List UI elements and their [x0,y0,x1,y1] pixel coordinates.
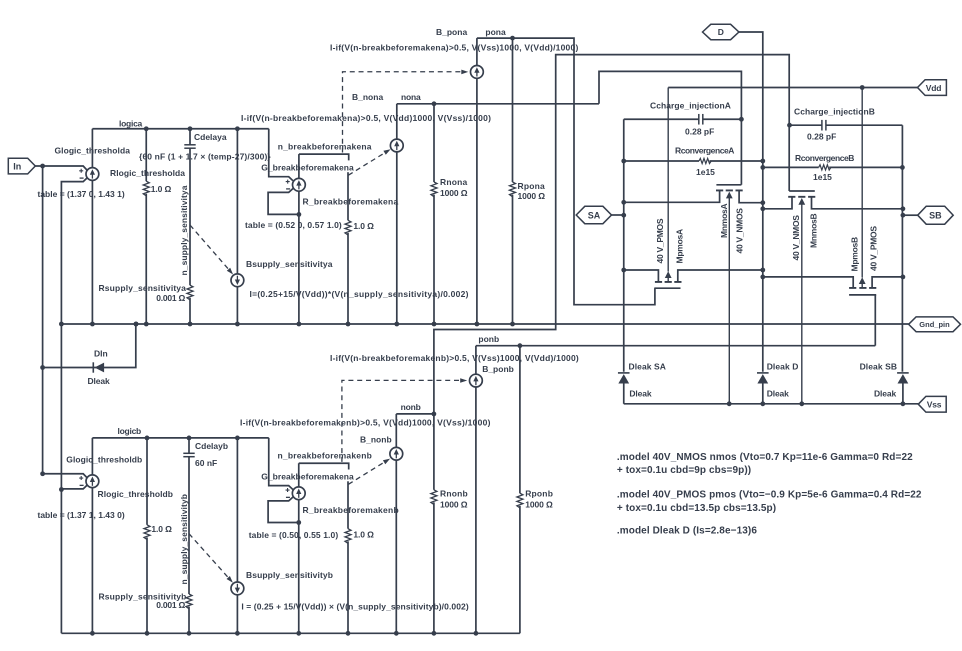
svg-text:.model 40V_NMOS nmos (Vto=0.7: .model 40V_NMOS nmos (Vto=0.7 Kp=11e-6 G… [617,452,913,463]
transistor MpmosB left lead [760,275,853,288]
wire logica to G_breakbeforemakena plus [269,129,293,181]
svg-text:Vss: Vss [927,400,942,410]
label Dleak SA name [629,388,651,398]
wire B_nonb bottom [395,460,397,633]
wire Glogic_thresholdb minus return [61,485,87,489]
svg-text:G_breakbeforemakena: G_breakbeforemakena [261,162,354,172]
wire SA rail [621,119,626,372]
wire In to Glogic_thresholda [35,164,87,171]
svg-text:1000 Ω: 1000 Ω [525,499,553,509]
label nonb [401,402,421,412]
wire In to Glogic_thresholdb [40,471,87,478]
pin Vss [918,396,946,412]
label Rnonb [440,488,468,498]
wire B_ponb bottom [475,387,477,633]
transistor MpmosA gate [654,287,680,289]
svg-text:R_breakbeforemakena: R_breakbeforemakena [303,196,399,206]
svg-text:+ tox=0.1u cbd=13.5p cbs=13.5p: + tox=0.1u cbd=13.5p cbs=13.5p) [617,503,776,514]
label Rsupply_sensitivityb value [156,600,185,610]
svg-text:MnmosA: MnmosA [719,204,729,239]
svg-text:40 V_PMOS: 40 V_PMOS [869,226,879,271]
svg-text:1000 Ω: 1000 Ω [440,499,468,509]
wire B_pona top [476,38,478,65]
resistor Rponb [517,346,523,634]
label I-if nonb [240,417,491,427]
text model Dleak [617,525,757,536]
wire Glogic_thresholdb top [91,438,93,475]
wire Glogic_thresholda top [91,129,93,168]
svg-text:Dleak: Dleak [629,388,651,398]
wire D pin to D rail [739,32,763,372]
wire Bsupply_sensitivitya bottom [236,287,238,324]
label B_ponb [482,364,514,374]
svg-text:Dleak D: Dleak D [767,361,799,371]
current source B_pona [471,66,484,79]
label R_breakbeforemakenb [303,505,399,515]
transistor MpmosA ticks [655,281,682,283]
svg-text:Rlogic_thresholda: Rlogic_thresholda [110,168,185,178]
current source G_breakbeforemakenb [286,487,306,500]
svg-text:I-if(V(n-breakbeforemakena)>0.: I-if(V(n-breakbeforemakena)>0.5, V(Vdd)1… [241,113,491,123]
wire B_nona bottom [396,152,398,324]
label Cdelaya [194,132,227,142]
wire DIn branch [40,322,138,370]
label R_breakbeforemakena [303,196,399,206]
label MnmosA model [735,208,745,254]
label RconvergenceA value [696,167,715,177]
resistor R_breakbeforemakenb [345,481,351,633]
diode Dleak SB [897,373,909,384]
label logica [119,118,143,128]
dashed arrow to Bsupply_sensitivityb [189,534,233,583]
svg-text:Gnd_pin: Gnd_pin [919,320,950,329]
label MpmosB model [869,226,879,271]
svg-text:Dleak SA: Dleak SA [629,361,667,371]
resistor Rpona [510,38,516,324]
svg-text:I=(0.25+15/V(Vdd))*(V(n_supply: I=(0.25+15/V(Vdd))*(V(n_supply_sensitivi… [250,289,469,299]
svg-text:.model 40V_PMOS pmos (Vto=−0.9: .model 40V_PMOS pmos (Vto=−0.9 Kp=5e-6 G… [617,490,922,501]
svg-text:Bsupply_sensitivityb: Bsupply_sensitivityb [246,570,333,580]
label I-if pona [330,43,579,53]
svg-text:I-if(V(n-breakbeforemakena)>0.: I-if(V(n-breakbeforemakena)>0.5, V(Vss)1… [330,43,579,53]
label Bsupply_sensitivityb [246,570,333,580]
svg-text:n_breakbeforemakena: n_breakbeforemakena [278,141,372,151]
pin D [703,24,739,39]
svg-text:0.28 pF: 0.28 pF [685,126,714,136]
svg-text:MpmosA: MpmosA [674,229,684,264]
transistor MpmosB ticks [849,287,876,289]
svg-text:1.0 Ω: 1.0 Ω [353,221,374,231]
transistor MpmosB right lead [872,275,905,288]
transistor MnmosA left lead [624,190,720,202]
label n_supply_sensitivitya [179,185,189,275]
svg-text:0.001 Ω: 0.001 Ω [156,293,185,303]
label MpmosA model [655,218,665,263]
net pona bracket with wire to MpmosA gate [477,36,655,305]
wire B_nona top [396,104,398,139]
svg-text:n_supply_sensitivityb: n_supply_sensitivityb [179,494,189,585]
label Dleak D name [767,388,789,398]
capacitor Cdelaya [184,129,195,285]
wire ground bus with junctions [59,322,909,327]
label Ccharge_injectionA value [685,126,714,136]
wire Glogic_thresholda bottom [91,180,93,324]
svg-text:1.0 Ω: 1.0 Ω [151,524,172,534]
svg-text:Dleak: Dleak [88,376,110,386]
svg-text:Cdelaya: Cdelaya [194,132,227,142]
transistor MnmosA bulk [726,192,733,404]
svg-text:I-if(V(n-breakbeforemakenb)>0.: I-if(V(n-breakbeforemakenb)>0.5, V(Vdd)1… [240,417,491,427]
svg-text:table = (0.50, 0.55 1.0): table = (0.50, 0.55 1.0) [249,530,339,540]
svg-text:nona: nona [401,92,421,102]
resistor R_breakbeforemakena [345,172,351,324]
label Dleak D [767,361,799,371]
transistor MpmosB bulk [859,88,866,288]
svg-text:+ tox=0.1u cbd=9p cbs=9p)): + tox=0.1u cbd=9p cbs=9p)) [617,465,751,476]
label MnmosB [808,214,818,249]
svg-text:Rsupply_sensitivitya: Rsupply_sensitivitya [99,283,187,293]
transistor MnmosB left lead [760,197,792,211]
svg-text:B_nonb: B_nonb [360,435,392,445]
wire Vss rail [624,401,919,406]
svg-text:Ccharge_injectionA: Ccharge_injectionA [650,100,731,110]
label DIn [94,349,108,359]
label Rsupply_sensitivityb [99,592,187,602]
pin Gnd_pin [909,317,961,332]
wire Vdd line [668,85,917,90]
resistor Rnonb [431,414,437,633]
label Bsupply_sensitivitya [246,259,333,269]
label B_pona [436,27,467,37]
label Rnonb value [440,499,468,509]
resistor Rsupply_sensitivitya [187,285,193,324]
label Glogic_thresholda [55,146,131,156]
transistor MnmosB bulk [798,198,805,404]
transistor MnmosA gate [716,184,741,186]
label Cdelayb value [195,458,217,468]
wire SB rail [901,125,906,372]
svg-text:Rnonb: Rnonb [440,488,468,498]
wire logica to Bsupply_sensitivitya [236,129,238,274]
svg-text:Dleak: Dleak [767,388,789,398]
wire Dleak D to Vss [762,384,764,404]
label Rlogic_thresholdb [98,489,173,499]
svg-text:D: D [718,27,724,37]
svg-text:B_nona: B_nona [352,92,383,102]
label Bsupply_sensitivitya formula [250,289,469,299]
net nona bus [397,101,599,106]
svg-text:1000 Ω: 1000 Ω [440,188,468,198]
wire Glogic_thresholda minus return [59,178,87,492]
wire SA pin stub [612,214,624,216]
wire Dleak SB to Vss [902,384,904,404]
resistor RconvergenceA [624,158,765,163]
wire G_breakbeforemakena feedback loop [268,189,301,217]
svg-text:1000 Ω: 1000 Ω [518,191,546,201]
label nona [401,92,421,102]
text model NMOS line2 [617,465,751,476]
svg-text:1.0 Ω: 1.0 Ω [353,530,374,540]
label Rlogic_thresholdb value [151,524,172,534]
wire G_breakbeforemakenb feedback loop [268,497,301,525]
svg-text:table = (1.37 0, 1.43 1): table = (1.37 0, 1.43 1) [38,189,125,199]
svg-text:G_breakbeforemakena: G_breakbeforemakena [261,471,354,481]
label Dleak SB name [874,388,896,398]
label Rnona value [440,188,468,198]
resistor RconvergenceB [760,165,904,170]
svg-text:In: In [13,161,21,171]
svg-text:I-if(V(n-breakbeforemakenb)>0.: I-if(V(n-breakbeforemakenb)>0.5, V(Vss)1… [330,353,579,363]
svg-text:table = (1.37 1, 1.43 0): table = (1.37 1, 1.43 0) [38,510,125,520]
wire G_breakbeforemakena bottom [298,191,300,324]
label RconvergenceB [795,153,854,163]
diode DIn [93,362,104,372]
transistor MnmosB gate [789,190,815,192]
net nonb bracket [396,412,436,417]
label G_breakbeforemakena [261,162,354,172]
net ponb line to MpmosB gate [476,343,875,348]
label B_nona [352,92,383,102]
wire In vertical [42,166,44,474]
transistor MpmosA right lead [678,268,765,282]
wire Bsupply_sensitivityb bottom [236,595,238,634]
dashed arrow to B_nonb [348,459,390,485]
svg-text:Rponb: Rponb [525,488,553,498]
svg-text:ponb: ponb [478,334,499,344]
wire B_nonb top [395,414,397,447]
net n_breakbeforemakena bracket [299,154,349,160]
wire G_breakbeforemakena output top [298,154,300,178]
wire nonb to MnmosB gate [434,55,789,414]
label ponb [478,334,499,344]
wire B_ponb top [475,346,477,375]
wire G_breakbeforemakenb bottom [298,500,300,634]
wire logicb to G_breakbeforemakenb plus [269,438,293,490]
label Rpona [518,181,546,191]
net n_breakbeforemakenb bracket [299,463,349,469]
label table G_breakbeforemakenb [249,530,339,540]
svg-text:1e15: 1e15 [813,172,832,182]
current source Glogic_thresholda [79,168,99,181]
svg-text:SA: SA [588,210,601,220]
label Dleak SA [629,361,667,371]
label I-if nona [241,113,491,123]
svg-text:n_breakbeforemakenb: n_breakbeforemakenb [278,450,373,460]
label Rnona [440,177,468,187]
label Bsupply_sensitivityb formula [241,601,468,611]
svg-text:40 V_NMOS: 40 V_NMOS [791,215,801,261]
svg-text:1e15: 1e15 [696,167,715,177]
svg-text:MnmosB: MnmosB [808,214,818,249]
label Rsupply_sensitivitya value [156,293,185,303]
label Dleak SB [860,361,898,371]
label Rsupply_sensitivitya [99,283,187,293]
label Rponb [525,488,553,498]
wire stage B ground bus with junctions [61,631,520,636]
label MpmosA [674,229,684,264]
current source Bsupply_sensitivitya [231,274,244,287]
svg-text:pona: pona [485,27,506,37]
transistor MnmosA right lead [739,190,765,205]
svg-text:DIn: DIn [94,349,108,359]
svg-text:B_pona: B_pona [436,27,467,37]
svg-text:SB: SB [929,211,942,221]
current source Bsupply_sensitivityb [231,582,244,595]
diode Dleak SA [618,373,630,384]
pin SA [576,206,611,223]
current source Glogic_thresholdb [79,475,99,488]
label RconvergenceA [675,145,734,155]
label Cdelaya value [139,151,271,161]
svg-text:Rnona: Rnona [440,177,468,187]
svg-text:Glogic_thresholdb: Glogic_thresholdb [66,455,142,465]
current source G_breakbeforemakena [286,178,306,191]
diode Dleak D [757,373,769,384]
transistor MnmosB right lead [812,197,906,211]
svg-text:{60 nF (1 + 1.7 × (temp-27)/30: {60 nF (1 + 1.7 × (temp-27)/300)} [139,151,271,161]
svg-text:40 V_PMOS: 40 V_PMOS [655,218,665,263]
label Ccharge_injectionA [650,100,731,110]
label Rlogic_thresholda [110,168,185,178]
text model NMOS line1 [617,452,913,463]
svg-text:table = (0.52 0, 0.57 1.0): table = (0.52 0, 0.57 1.0) [245,220,342,230]
capacitor Cdelayb [183,438,194,594]
label Glogic_thresholdb [66,455,142,465]
dashed line n_breakbeforemakena to B_pona [343,70,469,153]
svg-text:40 V_NMOS: 40 V_NMOS [735,208,745,254]
dashed arrow to Bsupply_sensitivitya [190,225,233,275]
label Rpona value [518,191,546,201]
wire x61 to stage B bus [60,324,62,633]
label DIn Dleak [88,376,110,386]
current source B_nonb [390,447,403,460]
label logicb [118,426,142,436]
resistor Rlogic_thresholdb [144,438,150,633]
wire logicb to Bsupply_sensitivityb [236,438,238,582]
transistor MpmosA bulk [665,88,672,282]
resistor Rsupply_sensitivityb [186,594,192,633]
label Rlogic_thresholda value [151,184,172,194]
label n_breakbeforemakena [278,141,372,151]
capacitor Ccharge_injectionA [624,114,744,125]
label Cdelayb [195,441,228,451]
pin Vdd [918,80,947,96]
label table B [38,510,125,520]
svg-text:Dleak SB: Dleak SB [860,361,898,371]
svg-text:0.28 pF: 0.28 pF [807,132,836,142]
svg-text:logica: logica [119,118,143,128]
resistor Rnona [431,104,437,324]
svg-text:Bsupply_sensitivitya: Bsupply_sensitivitya [246,259,333,269]
wire G_breakbeforemakenb output top [298,463,300,487]
svg-text:1.0 Ω: 1.0 Ω [151,184,172,194]
label I-if ponb [330,353,579,363]
current source B_nona [390,139,403,152]
wire SB pin stub [903,214,918,216]
svg-text:n_supply_sensitivitya: n_supply_sensitivitya [179,185,189,275]
net logica bus [92,126,268,131]
wire Dleak SA to Vss corner [623,384,625,404]
svg-text:Dleak: Dleak [874,388,896,398]
transistor MnmosB ticks [788,196,815,198]
label G_breakbeforemakenb [261,471,354,481]
dashed arrow to B_nona [348,149,390,175]
label R_breakbeforemakena value [353,221,374,231]
transistor MpmosB gate [849,294,876,296]
svg-text:B_ponb: B_ponb [482,364,514,374]
label MpmosB [849,237,859,272]
pin SB [918,206,954,224]
label n_supply_sensitivityb [179,494,189,585]
svg-text:MpmosB: MpmosB [849,237,859,272]
pin In [8,158,35,174]
svg-text:0.001 Ω: 0.001 Ω [156,600,185,610]
label Rponb value [525,499,553,509]
label table G_breakbeforemakena [245,220,342,230]
svg-text:Vdd: Vdd [926,83,941,93]
transistor MpmosA left lead [624,270,659,282]
current source B_ponb [470,374,483,387]
svg-text:60 nF: 60 nF [195,458,217,468]
svg-text:Rpona: Rpona [518,181,546,191]
svg-text:logicb: logicb [118,426,142,436]
dashed line n_breakbeforemakenb to B_ponb [342,378,467,462]
transistor MnmosA ticks [716,189,743,191]
label Ccharge_injectionB value [807,132,836,142]
net logicb bus [92,436,268,441]
label n_breakbeforemakenb [278,450,373,460]
svg-text:Cdelayb: Cdelayb [195,441,228,451]
wire B_pona bottom [476,78,478,324]
svg-text:RconvergenceA: RconvergenceA [675,145,734,155]
capacitor Ccharge_injectionB [787,120,902,131]
resistor Rlogic_thresholda [143,129,149,324]
label RconvergenceB value [813,172,832,182]
label B_nonb [360,435,392,445]
transistor MpmosB gate lead [874,295,876,346]
text model PMOS line1 [617,490,922,501]
svg-text:RconvergenceB: RconvergenceB [795,153,854,163]
wire nona to MnmosA gate [599,71,741,184]
svg-text:nonb: nonb [401,402,421,412]
label table A [38,189,125,199]
text model PMOS line2 [617,503,776,514]
wire Glogic_thresholdb bottom [91,488,93,634]
label MnmosA [719,204,729,239]
label Ccharge_injectionB [794,107,875,117]
label MnmosB model [791,215,801,261]
svg-text:R_breakbeforemakenb: R_breakbeforemakenb [303,505,399,515]
label R_breakbeforemakenb value [353,530,374,540]
label pona [485,27,506,37]
svg-text:Rlogic_thresholdb: Rlogic_thresholdb [98,489,173,499]
svg-text:.model Dleak D (Is=2.8e−13)6: .model Dleak D (Is=2.8e−13)6 [617,525,757,536]
